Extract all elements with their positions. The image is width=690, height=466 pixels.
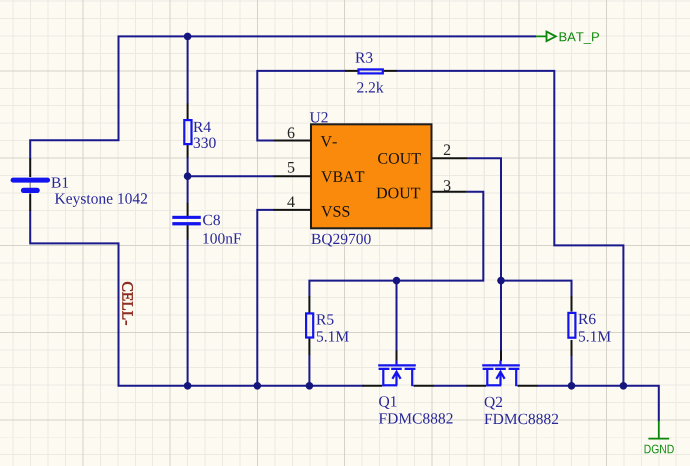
label R3 <box>355 52 372 63</box>
junction top R4 <box>184 33 192 41</box>
wire rail between Q1 and Q2 <box>433 385 467 387</box>
power label DGND <box>645 445 674 454</box>
pin number 4 <box>287 197 295 208</box>
capacitor C8 pins <box>187 203 189 240</box>
pin name VSS <box>321 206 349 217</box>
pin name V- <box>321 136 337 147</box>
pin name COUT <box>378 153 421 164</box>
wire V- pin 6 to R3 left <box>257 71 346 141</box>
wire BAT_P top rail <box>30 36 536 159</box>
wire COUT to node <box>467 158 501 280</box>
label C8 <box>203 215 220 226</box>
label BQ29700 <box>311 234 370 247</box>
label Keystone 1042 <box>55 193 147 207</box>
transistor Q2 gate pin <box>500 351 502 362</box>
wire R6 bottom to rail <box>571 355 573 386</box>
resistor R3 pins <box>345 70 397 72</box>
power port DGND <box>648 421 669 439</box>
battery B1 <box>29 182 31 188</box>
transistor Q1 gate pin <box>396 351 398 362</box>
junction Q2 gate node <box>497 277 505 285</box>
wire rail right to DGND drop <box>537 386 659 422</box>
pin number 3 <box>444 180 451 191</box>
label 2.2k <box>357 82 383 93</box>
junction R5 rail <box>306 382 314 390</box>
pin number 2 <box>444 144 450 155</box>
wire R4 top branch <box>187 36 189 104</box>
pin name DOUT <box>377 188 421 199</box>
junction VSS rail <box>253 382 261 390</box>
transistor Q2 <box>482 361 520 387</box>
pin name VBAT <box>321 171 364 182</box>
label 5.1M <box>317 331 349 341</box>
pin 2 line <box>432 157 468 159</box>
wire R3 right to rail <box>396 71 623 386</box>
label 100nF <box>203 233 241 244</box>
wire C8 bottom to rail <box>187 239 189 386</box>
transistor Q2 source/drain pins <box>467 385 538 387</box>
resistor R3 <box>359 69 383 73</box>
junction Q1 gate node <box>393 277 401 285</box>
wire node to Q1 gate <box>396 281 398 351</box>
wire R4 bottom to VBAT junction <box>187 157 189 204</box>
label FDMC8882 <box>379 413 453 424</box>
resistor R5 <box>306 313 313 337</box>
label R5 <box>316 314 333 324</box>
wire VSS pin 4 to rail <box>257 210 274 386</box>
label B1 <box>51 177 68 187</box>
resistor R4 pins <box>187 104 189 158</box>
transistor Q1 <box>378 361 416 387</box>
label Q1 <box>379 396 396 409</box>
port BAT_P arrow <box>536 32 556 42</box>
junction VBAT node <box>184 172 192 180</box>
wire battery negative down to bottom rail <box>30 211 363 386</box>
junction R3 rail <box>620 382 628 390</box>
wire R5 bottom to rail <box>308 355 310 386</box>
label FDMC8882 <box>484 414 558 425</box>
net label CELL- <box>122 282 133 325</box>
transistor Q1 source/drain pins <box>363 385 434 387</box>
wire node to R6 top <box>501 281 572 297</box>
resistor R6 <box>568 313 575 338</box>
resistor R6 pins <box>571 296 573 356</box>
resistor R5 pins <box>308 296 310 355</box>
label R6 <box>578 314 595 325</box>
port label BAT_P <box>560 32 599 44</box>
pin 5 line <box>274 175 312 177</box>
label 5.1M <box>579 331 611 341</box>
label R4 <box>193 122 210 132</box>
pin 4 line <box>274 209 312 211</box>
wire node to Q2 gate <box>500 281 502 351</box>
op-amp U2 body <box>311 124 432 228</box>
wire VBAT pin 5 <box>188 175 274 177</box>
label 330 <box>194 138 216 149</box>
resistor R4 <box>184 120 191 144</box>
label Q2 <box>485 397 503 410</box>
pin number 5 <box>288 162 295 173</box>
battery B1 pins <box>29 159 31 212</box>
junction R6 rail <box>568 382 576 390</box>
pin 3 line <box>432 191 467 193</box>
pin 6 line <box>274 140 312 142</box>
junction C8 rail <box>184 382 192 390</box>
capacitor C8 <box>172 216 201 226</box>
pin number 6 <box>288 127 295 138</box>
label U2 <box>310 112 328 123</box>
wire DOUT to R5 top <box>309 192 483 297</box>
